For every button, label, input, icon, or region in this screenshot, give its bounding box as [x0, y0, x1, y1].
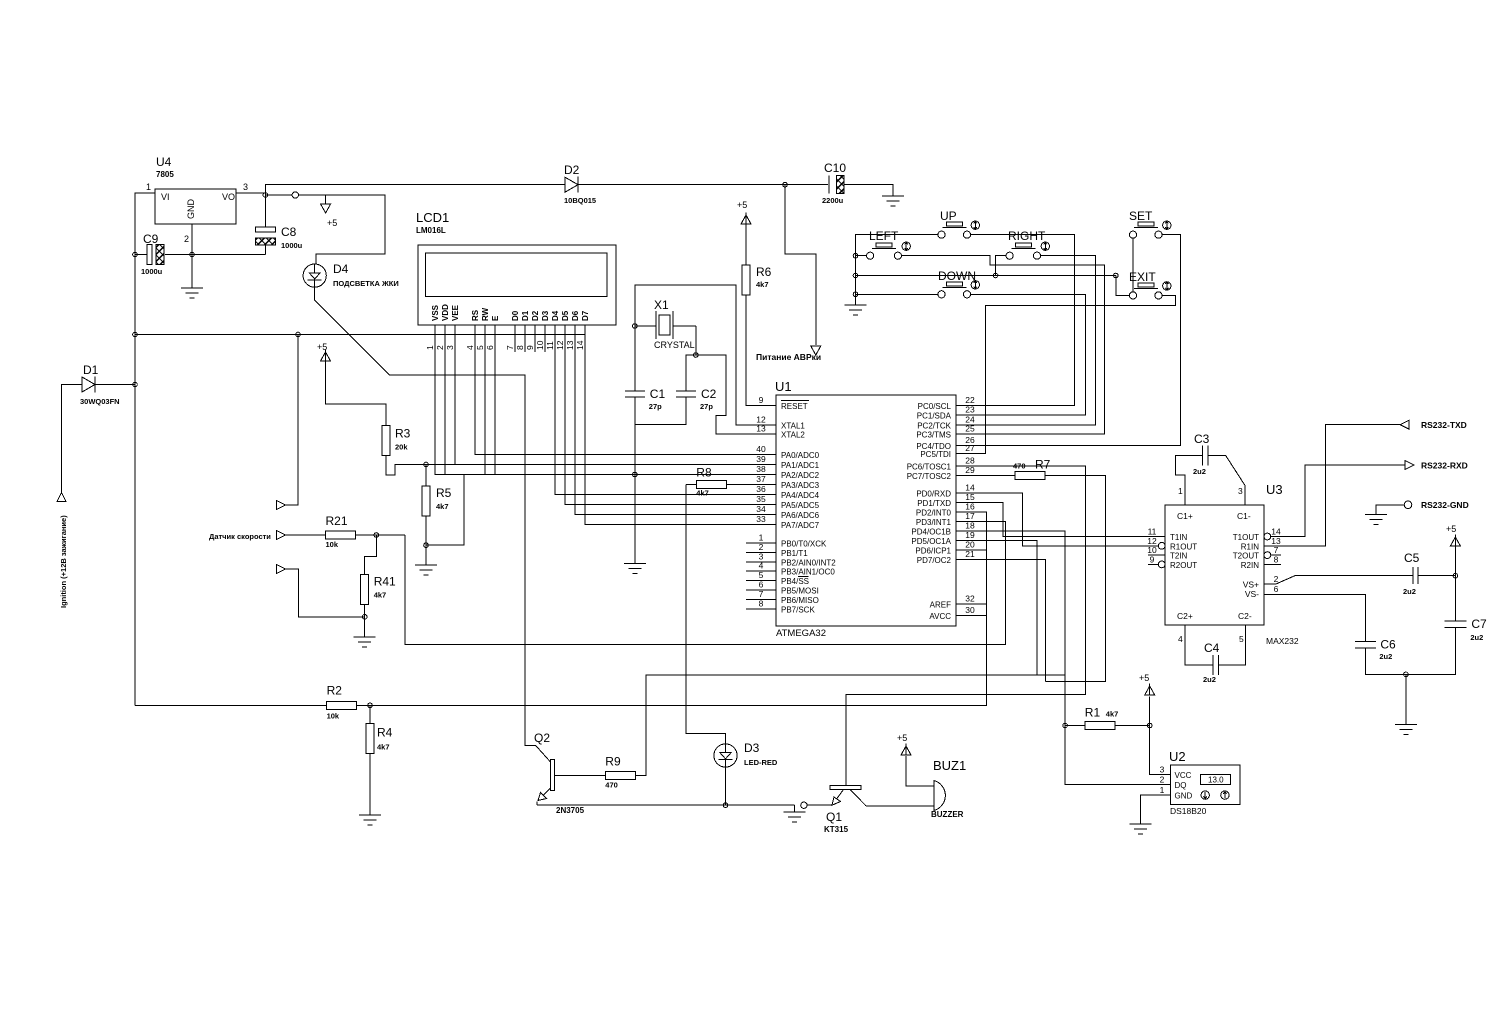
input port spare upper	[276, 501, 285, 510]
svg-text:C1+: C1+	[1177, 511, 1193, 521]
wire PD0 to R1OUT	[956, 493, 1156, 546]
input port spare lower	[276, 565, 285, 574]
wire U4 pin3 net to LCD/D4	[265, 195, 385, 265]
svg-text:3: 3	[445, 345, 455, 350]
svg-text:6: 6	[1274, 584, 1279, 594]
wire PD1 to T1IN	[956, 502, 1165, 536]
wire EXIT out to PC5	[956, 295, 1176, 453]
capacitor C4 2u2	[1203, 641, 1220, 684]
svg-text:4: 4	[465, 345, 475, 350]
wire pin1 C1+	[1176, 456, 1203, 506]
svg-text:10k: 10k	[326, 540, 339, 549]
wire LCD VSS to gnd rail	[435, 325, 746, 475]
svg-text:1000u: 1000u	[141, 267, 163, 276]
wire R2 to junction to INT0	[357, 512, 987, 705]
junction R41 gnd	[362, 615, 367, 620]
junction +12 sensor branch	[296, 332, 301, 337]
input port speed sensor	[276, 531, 285, 540]
svg-text:R4: R4	[377, 726, 393, 740]
wire R21 out	[356, 534, 405, 536]
svg-text:X1: X1	[654, 298, 669, 312]
svg-text:2: 2	[184, 234, 189, 244]
wire to Q1 emitter	[807, 804, 832, 806]
svg-text:37: 37	[756, 474, 766, 484]
svg-text:XTAL1: XTAL1	[781, 421, 805, 430]
wire LCD D4 to PA4	[555, 325, 746, 495]
svg-text:2: 2	[1160, 775, 1165, 785]
junction rail mid branch	[133, 332, 138, 337]
wire U2 gnd	[1140, 795, 1170, 824]
svg-text:D7: D7	[581, 310, 590, 321]
wire R4 to gnd	[369, 754, 371, 815]
node emitter link	[801, 802, 807, 808]
wire sensor to R21	[285, 534, 325, 536]
svg-text:Датчик скорости: Датчик скорости	[209, 532, 271, 541]
ground U4	[181, 288, 203, 298]
capacitor C5 2u2	[1403, 551, 1420, 596]
svg-text:C9: C9	[143, 232, 159, 246]
node +5 test point	[292, 192, 298, 198]
svg-text:C4: C4	[1204, 641, 1220, 655]
wire left rail bottom to R2	[135, 704, 327, 706]
wire bottom emitter rail	[537, 804, 795, 806]
svg-text:PC5/TDI: PC5/TDI	[920, 450, 951, 459]
svg-text:PB3/AIN1/OC0: PB3/AIN1/OC0	[781, 568, 835, 577]
svg-text:40: 40	[756, 444, 766, 454]
junction R5 gnd	[424, 543, 429, 548]
wire RS232 gnd	[1376, 505, 1404, 515]
resistor R5 4k7	[422, 486, 452, 516]
svg-text:C5: C5	[1404, 551, 1420, 565]
svg-text:2u2: 2u2	[1203, 675, 1216, 684]
capacitor C10 hatched plate	[837, 176, 845, 194]
wire pin4 C2+	[1185, 625, 1213, 665]
wire pin5 C2-	[1219, 625, 1246, 665]
resistor R3 20k	[382, 425, 411, 455]
svg-text:18: 18	[965, 521, 975, 531]
svg-text:VCC: VCC	[1175, 771, 1192, 780]
wire T1OUT to RXD	[1281, 465, 1405, 537]
wire LCD D7 to PA7	[585, 325, 746, 525]
svg-text:R6: R6	[756, 265, 772, 279]
resistor R41 4k7	[361, 575, 396, 605]
wire C6 bottom	[1365, 648, 1406, 674]
wire SET left to EXIT left	[1132, 238, 1134, 291]
svg-text:7: 7	[505, 345, 515, 350]
svg-text:C7: C7	[1471, 617, 1487, 631]
svg-text:PA7/ADC7: PA7/ADC7	[781, 521, 820, 530]
power +5 buzzer	[897, 733, 911, 755]
wire R41 jog	[365, 535, 377, 575]
wire D1 to rail	[94, 384, 135, 386]
diode D2 10BQ015	[564, 163, 596, 205]
svg-text:2u2: 2u2	[1403, 587, 1416, 596]
svg-text:U3: U3	[1266, 482, 1283, 497]
svg-text:AREF: AREF	[930, 601, 951, 610]
svg-text:2: 2	[1274, 574, 1279, 584]
svg-text:10k: 10k	[327, 711, 340, 720]
svg-text:R21: R21	[326, 514, 348, 528]
svg-text:470: 470	[605, 781, 618, 790]
junction xtal right	[694, 353, 699, 358]
svg-text:R8: R8	[696, 466, 712, 480]
ground U2	[1129, 824, 1151, 834]
buzzer BUZ1	[931, 758, 966, 819]
svg-text:T1OUT: T1OUT	[1233, 533, 1259, 542]
wire +5 to R1	[1149, 697, 1151, 726]
svg-text:36: 36	[756, 484, 766, 494]
svg-text:+5: +5	[317, 342, 327, 352]
wire ignition to D1	[62, 385, 83, 494]
wire C5 to +5 node	[1418, 575, 1455, 577]
svg-text:DQ: DQ	[1175, 781, 1187, 790]
svg-text:4k7: 4k7	[377, 743, 390, 752]
wire LCD RS to PA0	[475, 325, 746, 455]
svg-text:8: 8	[515, 345, 525, 350]
svg-text:D6: D6	[571, 310, 580, 321]
svg-text:RW: RW	[481, 307, 490, 321]
wire +12 branch	[135, 334, 585, 336]
svg-text:R2: R2	[327, 683, 343, 697]
svg-text:VS-: VS-	[1245, 589, 1259, 599]
wire R7 out	[1045, 475, 1105, 681]
svg-text:RS232-TXD: RS232-TXD	[1421, 420, 1467, 430]
power +5 RS232	[1446, 524, 1460, 546]
wire top +5 rail	[265, 185, 565, 195]
svg-text:PC3/TMS: PC3/TMS	[916, 431, 951, 440]
capacitor C10 2200u	[822, 161, 846, 205]
svg-text:3: 3	[1238, 486, 1243, 496]
svg-text:+5: +5	[737, 200, 747, 210]
power +5 R1	[1139, 673, 1155, 695]
svg-text:PB6/MISO: PB6/MISO	[781, 596, 819, 605]
wire PC6 to Q1 base	[846, 466, 1086, 786]
output port RS232-RXD	[1405, 461, 1414, 470]
wire Q1 collector to buzzer	[866, 805, 934, 807]
wire R4 top	[369, 705, 371, 723]
svg-text:23: 23	[965, 405, 975, 415]
svg-text:470: 470	[1013, 461, 1026, 470]
svg-text:5: 5	[1239, 634, 1244, 644]
capacitor C9 1000u	[141, 232, 164, 276]
wire LEFT out	[902, 256, 1105, 435]
svg-text:PB0/T0/XCK: PB0/T0/XCK	[781, 540, 827, 549]
svg-text:4: 4	[1178, 634, 1183, 644]
wire LCD RW	[484, 325, 486, 475]
input port ignition (up triangle)	[57, 493, 66, 502]
svg-text:27: 27	[965, 443, 975, 453]
svg-text:R2OUT: R2OUT	[1170, 561, 1197, 570]
junction R1 left	[1063, 723, 1068, 728]
svg-text:28: 28	[965, 455, 975, 465]
capacitor C7 2u2	[1444, 617, 1487, 642]
svg-text:10BQ015: 10BQ015	[564, 196, 596, 205]
wire +5 stem	[1454, 546, 1456, 576]
ground crystal	[624, 564, 646, 574]
wire DQ line	[1065, 726, 1159, 785]
wire R8 to D3 anode	[686, 485, 725, 745]
svg-text:T2IN: T2IN	[1170, 552, 1188, 561]
svg-text:27p: 27p	[649, 402, 662, 411]
capacitor C3 2u2	[1193, 432, 1210, 476]
svg-text:D2: D2	[564, 163, 580, 177]
wire gnd stem bottom	[794, 805, 796, 812]
svg-text:VS+: VS+	[1243, 580, 1259, 590]
svg-text:RS232-GND: RS232-GND	[1421, 500, 1469, 510]
svg-text:Q2: Q2	[534, 731, 550, 745]
resistor R8 4k7	[686, 466, 746, 498]
svg-text:PA5/ADC5: PA5/ADC5	[781, 501, 820, 510]
push button EXIT	[1129, 270, 1171, 299]
junction btn rail 3	[853, 292, 858, 297]
svg-text:8: 8	[759, 598, 764, 608]
svg-text:U2: U2	[1169, 749, 1186, 764]
wire LCD E to PA2	[494, 325, 496, 475]
wire D2 to C10	[577, 184, 828, 186]
svg-text:9: 9	[759, 395, 764, 405]
wire Q2 gate to R9	[555, 775, 606, 777]
svg-text:PA0/ADC0: PA0/ADC0	[781, 451, 820, 460]
svg-text:13: 13	[565, 340, 575, 350]
svg-text:MAX232: MAX232	[1266, 636, 1299, 646]
wire LCD D0 stub	[514, 325, 516, 352]
svg-text:U1: U1	[775, 379, 792, 394]
svg-text:PA4/ADC4: PA4/ADC4	[781, 491, 820, 500]
svg-text:PD7/OC2: PD7/OC2	[917, 556, 952, 565]
svg-text:D1: D1	[521, 310, 530, 321]
resistor R6 4k7	[742, 265, 772, 295]
transistor Q1 KT315	[824, 786, 866, 835]
svg-text:+5: +5	[327, 218, 337, 228]
svg-text:2u2: 2u2	[1379, 652, 1392, 661]
junction left rail C9	[133, 252, 138, 257]
LED D4 backlight	[303, 262, 399, 288]
svg-text:R41: R41	[374, 575, 396, 589]
svg-text:R9: R9	[605, 755, 621, 769]
wire C9 to pin2 to C8	[165, 254, 265, 256]
svg-text:R7: R7	[1035, 457, 1051, 471]
svg-text:PC1/SDA: PC1/SDA	[917, 412, 952, 421]
svg-text:C2+: C2+	[1177, 611, 1193, 621]
junction rail D1	[133, 382, 138, 387]
svg-text:RS: RS	[471, 309, 480, 321]
wire xtal right to C2	[686, 326, 696, 391]
wire LCD VEE to contrast	[455, 325, 746, 465]
wire DOWN out to PC1	[956, 294, 1086, 415]
wire rail to LEFT	[856, 255, 867, 257]
wire button gnd rail	[856, 235, 939, 305]
wire rail to DOWN	[856, 293, 938, 295]
wire VS- to C6	[1264, 595, 1365, 642]
transistor Q2 2N3705	[534, 731, 585, 815]
push button RIGHT	[1006, 229, 1050, 259]
svg-text:LM016L: LM016L	[416, 226, 446, 235]
svg-text:PB4/SS: PB4/SS	[781, 577, 809, 586]
svg-text:R5: R5	[436, 486, 452, 500]
push button UP	[938, 209, 980, 238]
svg-text:3: 3	[243, 182, 248, 192]
wire PD4 drop	[956, 531, 1065, 675]
svg-text:11: 11	[545, 341, 555, 350]
svg-text:D1: D1	[83, 363, 99, 377]
svg-text:Ignition (+12В зажигание): Ignition (+12В зажигание)	[59, 515, 68, 608]
svg-text:3: 3	[1160, 764, 1165, 774]
junction U4 out node	[263, 193, 268, 198]
svg-text:PD3/INT1: PD3/INT1	[916, 518, 952, 527]
wire U4 pin3	[236, 193, 265, 195]
wire +5 to R3	[326, 361, 387, 425]
svg-text:2: 2	[435, 345, 445, 350]
wire D4 to Q2 drain	[315, 287, 551, 762]
power +5 R3	[317, 342, 331, 361]
wire R1 left	[1065, 725, 1085, 727]
push button DOWN	[938, 269, 980, 298]
svg-text:SET: SET	[1129, 209, 1153, 223]
junction C6/C7 gnd	[1404, 672, 1409, 677]
svg-text:ATMEGA32: ATMEGA32	[776, 628, 826, 639]
LED D3 LED-RED	[714, 741, 778, 767]
svg-text:14: 14	[575, 340, 585, 350]
svg-text:9: 9	[1150, 554, 1155, 564]
svg-text:BUZ1: BUZ1	[933, 758, 966, 773]
svg-text:4k7: 4k7	[374, 591, 387, 600]
svg-text:D0: D0	[511, 310, 520, 321]
svg-text:Q1: Q1	[826, 810, 842, 824]
svg-text:VSS: VSS	[431, 304, 440, 321]
wire buzzer +5	[906, 756, 934, 786]
wire U4 pin1 to left rail	[135, 193, 155, 705]
ground buttons	[845, 305, 867, 315]
svg-text:21: 21	[965, 549, 975, 559]
junction btn rail 2	[853, 273, 858, 278]
ground R4	[359, 815, 381, 825]
diode D1 30WQ03FN	[80, 363, 120, 406]
wire row2 to EXIT	[1116, 276, 1130, 296]
svg-text:+5: +5	[1139, 673, 1149, 683]
svg-text:38: 38	[756, 464, 766, 474]
svg-text:LCD1: LCD1	[416, 210, 449, 225]
svg-text:U4: U4	[156, 155, 172, 169]
junction VEE node	[424, 462, 429, 467]
connector RS232-GND	[1404, 501, 1412, 509]
wire LCD VDD	[444, 325, 446, 475]
wire R3 jog to node	[386, 455, 426, 475]
svg-text:PA1/ADC1: PA1/ADC1	[781, 461, 820, 470]
wire VEE node to VEE	[426, 464, 455, 466]
crystal X1	[635, 298, 696, 350]
wire C7 top	[1454, 576, 1456, 621]
wire VCC to U2	[1150, 726, 1171, 775]
svg-text:R3: R3	[395, 426, 411, 440]
svg-text:8: 8	[1274, 554, 1279, 564]
ground RS232 caps	[1395, 724, 1417, 734]
svg-text:R2IN: R2IN	[1241, 561, 1259, 570]
junction pin2/C9 line	[190, 252, 195, 257]
svg-text:PC6/TOSC1: PC6/TOSC1	[907, 462, 952, 471]
svg-text:XTAL2: XTAL2	[781, 431, 805, 440]
svg-text:13: 13	[756, 424, 766, 434]
ground R41	[354, 637, 376, 647]
svg-text:C3: C3	[1194, 432, 1210, 446]
wire U4 pin2 gnd	[191, 224, 193, 288]
svg-text:VO: VO	[222, 192, 235, 202]
svg-text:PD5/OC1A: PD5/OC1A	[911, 537, 951, 546]
resistor R21 10k	[326, 514, 356, 549]
svg-text:CRYSTAL: CRYSTAL	[654, 340, 695, 350]
svg-text:D3: D3	[541, 310, 550, 321]
svg-text:AVCC: AVCC	[929, 612, 951, 621]
svg-text:PB2/AIN0/INT2: PB2/AIN0/INT2	[781, 558, 836, 567]
svg-text:33: 33	[756, 514, 766, 524]
ground R5	[415, 565, 437, 575]
wire R5	[425, 465, 427, 486]
wire UP out to PC0	[956, 235, 1075, 406]
svg-text:10: 10	[535, 340, 545, 350]
svg-text:30: 30	[965, 605, 975, 615]
svg-text:2u2: 2u2	[1470, 633, 1483, 642]
junction R2/R4	[368, 703, 373, 708]
wire LCD D5 to PA5	[565, 325, 746, 505]
junction EXIT drop	[1114, 273, 1119, 278]
wire gnd node to C7	[1406, 628, 1456, 675]
svg-text:RS232-RXD: RS232-RXD	[1421, 461, 1468, 471]
capacitor C2 27p	[676, 387, 717, 411]
svg-text:E: E	[491, 315, 500, 321]
wire PD5 drop	[956, 541, 1037, 676]
wire R9 to DQ net	[635, 675, 1065, 776]
svg-text:PB5/MOSI: PB5/MOSI	[781, 587, 819, 596]
junction RIGHT drop	[993, 273, 998, 278]
svg-text:D4: D4	[551, 310, 560, 321]
wire PD7 drop	[956, 560, 1046, 682]
wire RIGHT out to PC2	[956, 256, 1096, 425]
svg-text:ПОДСВЕТКА ЖКИ: ПОДСВЕТКА ЖКИ	[333, 279, 399, 288]
svg-text:PB1/T1: PB1/T1	[781, 549, 808, 558]
wire PC7 to R7	[956, 474, 1015, 476]
svg-text:PC2/TCK: PC2/TCK	[917, 421, 951, 430]
wire SET out to PC4	[956, 235, 1181, 446]
svg-text:C8: C8	[281, 225, 297, 239]
wire C2 down	[635, 397, 686, 425]
svg-text:+5: +5	[897, 733, 907, 743]
svg-text:4k7: 4k7	[1106, 710, 1119, 719]
junction D3 bottom	[723, 803, 728, 808]
svg-text:T1IN: T1IN	[1170, 533, 1188, 542]
svg-text:13.0: 13.0	[1208, 776, 1224, 785]
regulator U4 7805	[146, 155, 248, 244]
wire xtal gnd stem	[634, 475, 636, 564]
svg-text:+5: +5	[1446, 524, 1456, 534]
wire AVR power drop	[785, 185, 816, 345]
svg-text:2N3705: 2N3705	[556, 806, 585, 815]
capacitor C8 1000u	[255, 225, 302, 250]
push button SET	[1129, 209, 1171, 238]
svg-text:C2: C2	[701, 387, 717, 401]
wire LCD D3 stub	[544, 325, 546, 352]
svg-text:PD1/TXD: PD1/TXD	[917, 499, 951, 508]
svg-text:29: 29	[965, 465, 975, 475]
svg-text:PC7/TOSC2: PC7/TOSC2	[907, 472, 952, 481]
junction R21/R41	[374, 533, 379, 538]
junction AVR power node	[783, 182, 788, 187]
wire VS+ to C5	[1264, 576, 1413, 584]
svg-text:17: 17	[965, 511, 975, 521]
svg-text:VI: VI	[161, 192, 170, 202]
svg-text:27p: 27p	[700, 402, 713, 411]
capacitor C6 2u2	[1355, 637, 1396, 661]
svg-text:R1OUT: R1OUT	[1170, 542, 1197, 551]
wire R5 bottom	[425, 516, 427, 565]
